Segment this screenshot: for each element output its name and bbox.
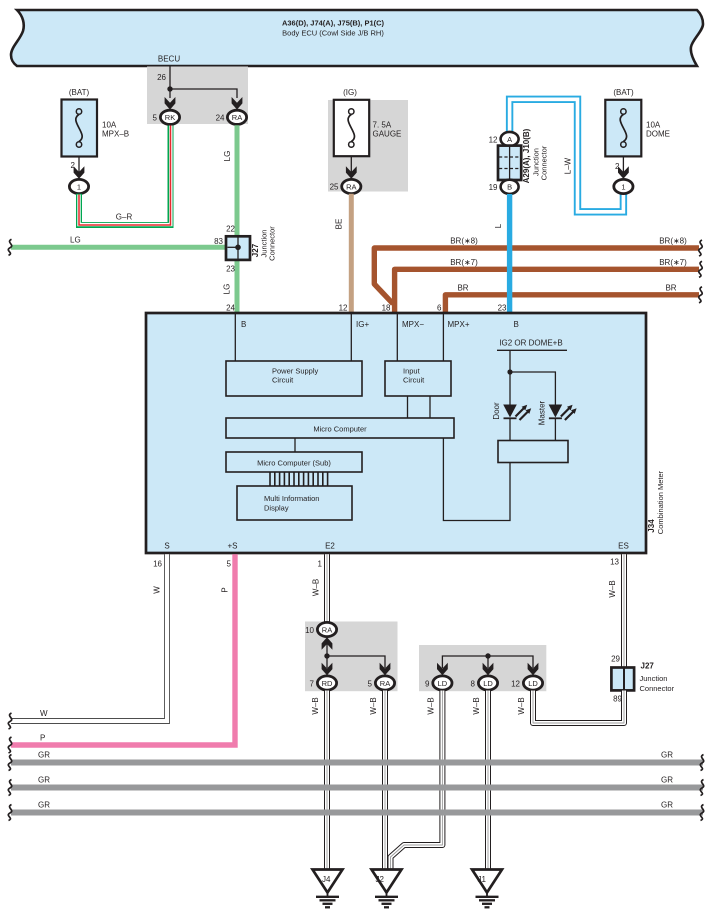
squiggles GR left xyxy=(8,755,11,771)
svg-text:1: 1 xyxy=(621,182,625,191)
svg-text:BR(∗8): BR(∗8) xyxy=(659,237,687,246)
wire G-R xyxy=(79,126,171,226)
connector 1 (MPX-B) xyxy=(69,179,88,193)
svg-text:(BAT): (BAT) xyxy=(69,88,90,97)
svg-text:1: 1 xyxy=(77,182,81,191)
svg-text:RA: RA xyxy=(322,625,332,634)
wire GR 3 xyxy=(11,810,703,816)
wire W xyxy=(11,554,167,721)
svg-text:RD: RD xyxy=(322,679,333,688)
wire W-B 8 LD to J1 xyxy=(485,691,491,870)
arrow into RA xyxy=(232,97,243,110)
arrow into connector 1 xyxy=(74,166,85,179)
connector 10 RA xyxy=(317,622,336,636)
rail line xyxy=(497,349,567,351)
comb connection xyxy=(270,472,328,486)
junction node xyxy=(507,369,512,374)
svg-text:W: W xyxy=(153,586,162,594)
break squiggle P xyxy=(8,737,11,753)
pin line IG+ xyxy=(350,314,352,361)
wire from rail xyxy=(509,350,511,405)
svg-text:W–B: W–B xyxy=(311,697,320,714)
connector shading box (IG) xyxy=(328,100,408,192)
svg-text:LD: LD xyxy=(483,679,493,688)
svg-text:J4: J4 xyxy=(322,875,331,884)
svg-text:LG: LG xyxy=(70,236,81,245)
wire W-B 5 RA to J2 xyxy=(382,691,388,870)
wire fuse pin xyxy=(350,156,352,172)
svg-text:Input: Input xyxy=(403,367,421,376)
wire W-B 7 RD to J4 xyxy=(324,691,330,870)
svg-text:GR: GR xyxy=(661,776,673,785)
svg-text:8: 8 xyxy=(471,679,476,688)
junction connector J27 (upper) xyxy=(226,236,250,260)
svg-text:BR: BR xyxy=(665,283,676,292)
svg-text:1: 1 xyxy=(318,560,323,569)
svg-text:BR(∗7): BR(∗7) xyxy=(659,258,687,267)
svg-text:RA: RA xyxy=(346,182,356,191)
wires input circuit to micro computer xyxy=(408,396,431,418)
svg-text:A: A xyxy=(507,135,512,144)
svg-text:Multi Information: Multi Information xyxy=(264,494,319,503)
svg-text:89: 89 xyxy=(613,695,622,704)
svg-text:A29(A), J10(B): A29(A), J10(B) xyxy=(522,128,531,183)
svg-text:B: B xyxy=(241,320,246,329)
svg-text:(IG): (IG) xyxy=(343,88,357,97)
wire L xyxy=(507,194,512,312)
wire P xyxy=(11,554,235,745)
wire bus xyxy=(442,656,533,668)
svg-text:G–R: G–R xyxy=(116,213,133,222)
svg-text:Micro Computer (Sub): Micro Computer (Sub) xyxy=(257,459,331,468)
svg-text:J27: J27 xyxy=(641,662,655,671)
svg-text:W–B: W–B xyxy=(472,697,481,714)
arrow into 25 RA xyxy=(346,166,357,179)
svg-text:13: 13 xyxy=(610,558,619,567)
svg-text:A36(D), J74(A), J75(B), P1(C): A36(D), J74(A), J75(B), P1(C) xyxy=(282,19,385,28)
arrow into 8 LD xyxy=(483,663,494,676)
svg-text:Master: Master xyxy=(538,400,547,425)
connector 1 (DOME) xyxy=(614,179,633,193)
svg-text:W–B: W–B xyxy=(369,697,378,714)
svg-text:J2: J2 xyxy=(376,875,385,884)
wire LG vertical from 24 RA to meter pin 24 xyxy=(235,125,240,312)
svg-text:GR: GR xyxy=(661,751,673,760)
connector 8 LD xyxy=(478,676,497,690)
arrow into connector 1 xyxy=(618,166,629,179)
svg-text:Circuit: Circuit xyxy=(403,376,425,385)
connector shading box (LD) xyxy=(419,645,546,691)
svg-text:(BAT): (BAT) xyxy=(613,88,634,97)
pin line MPX+ xyxy=(442,314,444,361)
connector 25 RA xyxy=(342,179,361,193)
svg-text:Junction: Junction xyxy=(640,674,668,683)
arrow into 9 LD xyxy=(437,663,448,676)
ground J1 xyxy=(472,870,502,908)
svg-text:L–W: L–W xyxy=(564,157,573,174)
svg-text:10A: 10A xyxy=(102,121,117,130)
svg-text:Door: Door xyxy=(492,402,501,420)
ground J2 xyxy=(372,870,402,908)
LED driver box xyxy=(498,441,568,463)
svg-text:10: 10 xyxy=(305,626,314,635)
svg-text:12: 12 xyxy=(339,304,348,313)
wire W-B 9 LD to J2 xyxy=(391,691,443,870)
micro computer (sub) box xyxy=(226,452,362,472)
svg-text:MPX–B: MPX–B xyxy=(102,130,129,139)
input circuit box xyxy=(385,361,451,396)
svg-text:J1: J1 xyxy=(478,875,487,884)
svg-text:Connector: Connector xyxy=(540,145,549,180)
svg-text:W: W xyxy=(40,709,48,718)
break squiggle BR(*8) right xyxy=(699,240,702,256)
connector shading box (BECU) xyxy=(147,67,248,125)
svg-text:5: 5 xyxy=(227,560,232,569)
svg-text:12: 12 xyxy=(489,135,498,144)
wire W-B from E2 xyxy=(324,554,330,622)
arrow into RK xyxy=(165,97,176,110)
svg-text:P: P xyxy=(221,587,230,592)
svg-text:Circuit: Circuit xyxy=(272,376,294,385)
wire BR(*8) xyxy=(374,248,699,304)
svg-text:+S: +S xyxy=(227,542,237,551)
wire fuse pin 2 xyxy=(78,157,80,173)
connector 9 LD xyxy=(433,676,452,690)
svg-text:Display: Display xyxy=(264,504,289,513)
svg-text:L: L xyxy=(494,223,503,228)
connector B (pin 19) xyxy=(501,180,519,194)
wire branch to RA xyxy=(170,89,237,98)
LED Door xyxy=(503,405,531,441)
svg-text:J34: J34 xyxy=(647,519,656,533)
svg-text:Power Supply: Power Supply xyxy=(272,367,319,376)
svg-text:B: B xyxy=(507,183,512,192)
pin line B xyxy=(234,314,236,361)
svg-text:26: 26 xyxy=(157,73,166,82)
svg-text:22: 22 xyxy=(226,225,235,234)
ground J4 xyxy=(313,870,343,908)
svg-text:GR: GR xyxy=(661,801,673,810)
fuse 10A MPX-B xyxy=(62,88,130,157)
svg-text:W–B: W–B xyxy=(517,697,526,714)
wire BR(*7) xyxy=(395,269,699,312)
connector shading box (RD/RA) xyxy=(305,622,398,692)
wire branch to master LED xyxy=(510,372,555,405)
svg-text:23: 23 xyxy=(498,304,507,313)
svg-text:9: 9 xyxy=(425,679,430,688)
power supply circuit box xyxy=(226,361,362,396)
svg-text:Connector: Connector xyxy=(268,226,277,261)
junction node xyxy=(485,653,490,658)
wire W-B loop 12 LD to J27 pin 89 xyxy=(533,691,624,724)
connector 5 RA xyxy=(375,676,394,690)
svg-text:5: 5 xyxy=(368,679,373,688)
wire micro computer to LED driver xyxy=(443,438,510,521)
break squiggle BR right xyxy=(699,287,702,303)
svg-text:25: 25 xyxy=(330,183,339,192)
svg-text:RK: RK xyxy=(165,113,175,122)
svg-text:19: 19 xyxy=(489,183,498,192)
svg-text:16: 16 xyxy=(153,560,162,569)
svg-text:IG2 OR DOME+B: IG2 OR DOME+B xyxy=(499,339,562,348)
svg-text:24: 24 xyxy=(216,114,225,123)
svg-text:BECU: BECU xyxy=(158,55,180,64)
svg-text:7: 7 xyxy=(310,679,315,688)
wire GR 2 xyxy=(11,785,703,791)
svg-text:P: P xyxy=(40,734,45,743)
junction node xyxy=(324,653,329,658)
fuse 7.5A GAUGE xyxy=(334,88,402,156)
pin line MPX- xyxy=(396,314,398,361)
arrow up into 10 RA xyxy=(322,637,333,650)
micro computer box xyxy=(226,418,454,438)
svg-text:E2: E2 xyxy=(325,542,335,551)
svg-text:BR(∗7): BR(∗7) xyxy=(450,258,478,267)
svg-text:23: 23 xyxy=(226,265,235,274)
connector A (pin 12) xyxy=(501,132,519,146)
arrow into 12 LD xyxy=(528,663,539,676)
wire BE xyxy=(349,194,354,312)
Body ECU banner xyxy=(11,10,703,66)
svg-text:5: 5 xyxy=(153,114,158,123)
svg-text:24: 24 xyxy=(226,304,235,313)
svg-text:DOME: DOME xyxy=(646,130,670,139)
arrow into 7 RD xyxy=(322,663,333,676)
wire LG horizontal from left xyxy=(11,245,228,250)
multi information display box xyxy=(237,486,352,520)
break squiggle LG left xyxy=(8,239,11,255)
break squiggle BR(*7) right xyxy=(699,261,702,277)
svg-text:Connector: Connector xyxy=(640,684,675,693)
svg-text:B: B xyxy=(514,320,519,329)
svg-text:LG: LG xyxy=(223,284,232,295)
svg-text:Body ECU (Cowl Side J/B RH): Body ECU (Cowl Side J/B RH) xyxy=(282,29,384,38)
wire L-W (double blue) xyxy=(510,99,624,212)
svg-text:12: 12 xyxy=(511,679,520,688)
wire GR 1 xyxy=(11,760,703,766)
wire branch to 5 RA xyxy=(327,656,385,668)
wire fuse pin 2 xyxy=(622,156,624,172)
svg-text:29: 29 xyxy=(611,655,620,664)
fuse 10A DOME xyxy=(605,88,670,156)
LED Master xyxy=(549,405,577,441)
connector 12 LD xyxy=(523,676,542,690)
junction connector J27 (lower) xyxy=(611,668,634,691)
svg-text:BE: BE xyxy=(335,219,344,230)
svg-text:Combination Meter: Combination Meter xyxy=(656,470,665,534)
svg-text:IG+: IG+ xyxy=(356,320,369,329)
connector 7 RD xyxy=(317,676,336,690)
svg-text:83: 83 xyxy=(214,237,223,246)
svg-text:GAUGE: GAUGE xyxy=(373,130,402,139)
svg-text:RA: RA xyxy=(232,113,242,122)
junction node xyxy=(167,86,172,91)
svg-text:W–B: W–B xyxy=(427,697,436,714)
wire W-B from ES xyxy=(621,554,627,668)
junction connector A29(A), J10(B) grid xyxy=(498,146,521,180)
svg-text:10A: 10A xyxy=(646,121,661,130)
svg-text:GR: GR xyxy=(38,776,50,785)
squiggles GR right xyxy=(700,755,703,771)
svg-text:S: S xyxy=(164,542,169,551)
wire down to junction xyxy=(326,637,328,668)
svg-text:BR: BR xyxy=(457,283,468,292)
svg-text:18: 18 xyxy=(382,304,391,313)
svg-text:BR(∗8): BR(∗8) xyxy=(450,237,478,246)
wire from BECU pin 26 xyxy=(169,66,171,98)
svg-text:MPX−: MPX− xyxy=(402,320,424,329)
svg-text:W–B: W–B xyxy=(608,580,617,597)
break squiggle W xyxy=(8,713,11,729)
svg-text:7. 5A: 7. 5A xyxy=(373,121,392,130)
svg-text:RA: RA xyxy=(380,679,390,688)
combination meter J34 box xyxy=(146,313,646,553)
svg-text:Micro Computer: Micro Computer xyxy=(313,425,367,434)
svg-text:LD: LD xyxy=(438,679,448,688)
connector 5 RK xyxy=(160,110,179,124)
wire BR xyxy=(445,295,699,312)
svg-text:MPX+: MPX+ xyxy=(448,320,470,329)
svg-text:ES: ES xyxy=(618,542,629,551)
svg-text:LD: LD xyxy=(528,679,538,688)
arrow into 5 RA xyxy=(380,663,391,676)
svg-text:GR: GR xyxy=(38,751,50,760)
svg-text:6: 6 xyxy=(437,304,442,313)
svg-text:GR: GR xyxy=(38,801,50,810)
connector 24 RA xyxy=(227,110,246,124)
svg-text:W–B: W–B xyxy=(312,579,321,596)
svg-text:LG: LG xyxy=(223,151,232,162)
wire micro computer to sub xyxy=(294,438,296,452)
